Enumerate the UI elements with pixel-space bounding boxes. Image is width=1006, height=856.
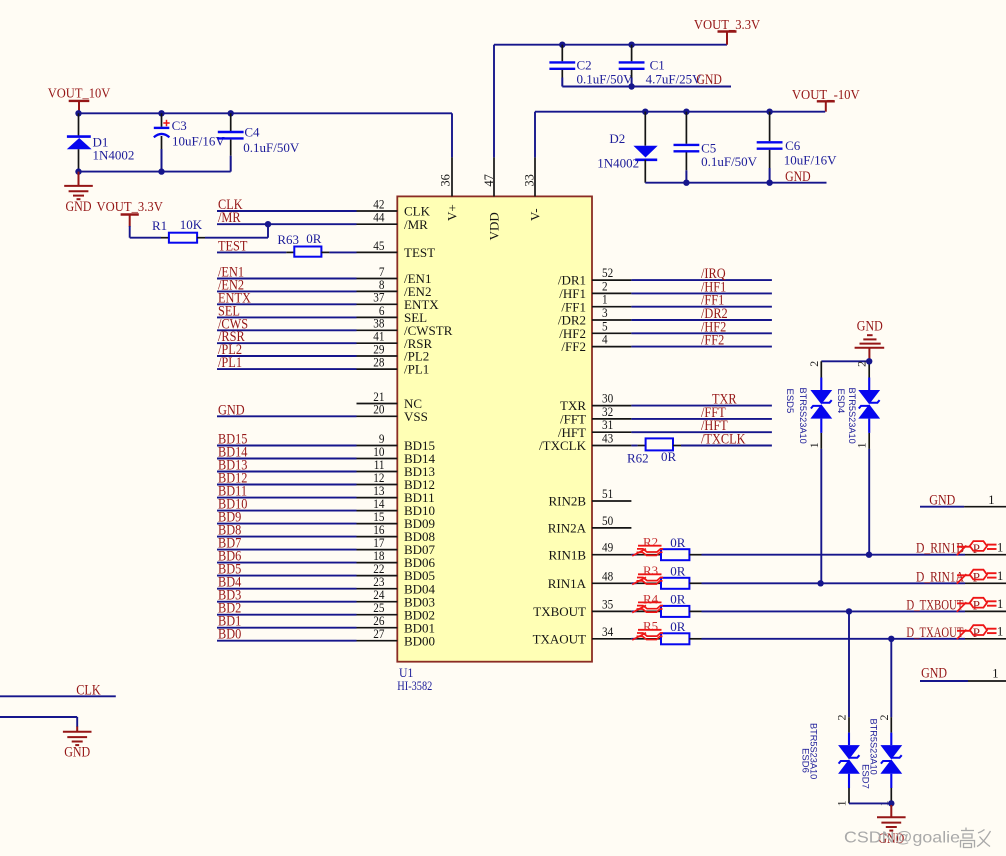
svg-text:2: 2 [807, 361, 821, 367]
svg-text:10K: 10K [180, 217, 203, 232]
pin 2 line ESD5 [820, 361, 822, 377]
svg-text:GND: GND [929, 492, 955, 508]
pin 34 line (TXAOUT) [592, 638, 631, 640]
svg-text:0.1uF/50V: 0.1uF/50V [701, 154, 758, 169]
svg-text:BTR5S23A10: BTR5S23A10 [869, 719, 879, 775]
resistor R5 body [661, 633, 689, 644]
svg-text:18: 18 [373, 549, 384, 563]
not-fitted marker on R4 [632, 602, 663, 612]
node D_RIN1B junction [866, 552, 872, 558]
wire GND net [217, 415, 357, 417]
TVS diode ESD4 symbol [858, 378, 880, 433]
wire BD15 net [217, 445, 357, 447]
svg-text:R1: R1 [152, 218, 167, 233]
wire ESD6 bottom to ESD7 bottom [849, 802, 891, 804]
svg-text:/FF2: /FF2 [561, 339, 586, 354]
svg-text:P: P [973, 625, 980, 640]
wire /EN1 net [217, 278, 357, 280]
svg-text:45: 45 [373, 239, 384, 253]
wire BD12 net [217, 484, 357, 486]
svg-text:0R: 0R [306, 231, 322, 246]
wire BD11 net [217, 497, 357, 499]
masked connector marker D_TXBOUT [957, 598, 997, 613]
pin 37 line (ENTX) [357, 303, 398, 305]
capacitor C1 plates [619, 62, 645, 68]
svg-text:30: 30 [602, 392, 613, 406]
wire VOUT_10V rail to V+ pin corner [79, 112, 453, 114]
capacitor C3 plus sign [163, 120, 169, 126]
pin 1 line ESD7 [890, 788, 892, 804]
svg-text:BTR5S23A10: BTR5S23A10 [847, 388, 857, 444]
wire GND stub upper right to edge [964, 506, 1006, 508]
resistor R62 body [646, 438, 673, 450]
wire D_RIN1A net [702, 582, 966, 584]
resistor R62 left lead [638, 445, 646, 447]
wire /EN2 net [217, 290, 357, 292]
capacitor C2 bottom lead [561, 70, 563, 87]
wire BD14 net [217, 458, 357, 460]
svg-text:43: 43 [602, 432, 613, 446]
svg-text:4.7uF/25V: 4.7uF/25V [646, 71, 703, 86]
wire /HF1 net [631, 292, 772, 294]
capacitor C1 top lead [631, 45, 633, 62]
svg-text:0R: 0R [670, 619, 686, 634]
pin 1 line (/FF1) [592, 306, 631, 308]
capacitor C1 bottom lead [631, 70, 633, 87]
wire ESD pair top rail [821, 360, 869, 362]
svg-text:44: 44 [373, 211, 385, 225]
svg-text:29: 29 [373, 342, 384, 356]
pin 47 line (VDD) [493, 157, 495, 196]
pin 15 line (BD09) [357, 523, 398, 525]
wire ENTX net [217, 303, 357, 305]
wire pin 43 to R62 [631, 445, 637, 447]
svg-text:/PL1: /PL1 [218, 355, 242, 371]
node VOUT_10V at D1 top [75, 110, 81, 116]
svg-text:BD00: BD00 [404, 633, 435, 648]
pin 17 line (BD07) [357, 549, 398, 551]
svg-text:R2: R2 [643, 535, 658, 550]
svg-text:VOUT_10V: VOUT_10V [48, 86, 111, 101]
svg-text:0.1uF/50V: 0.1uF/50V [243, 140, 300, 155]
wire BD2 net [217, 614, 357, 616]
svg-text:D_TXAOUT: D_TXAOUT [906, 625, 963, 641]
pin 51 line (RIN2B) [592, 500, 631, 502]
pin 21 line (NC) [357, 403, 398, 405]
resistor R5 left lead [637, 638, 661, 640]
wire pin 48 to R3 [631, 582, 636, 584]
wire GND stub lower right [920, 680, 968, 682]
svg-text:RIN2A: RIN2A [548, 521, 587, 536]
svg-text:C3: C3 [172, 118, 187, 133]
pin 11 line (BD13) [357, 471, 398, 473]
wire SEL net [217, 316, 357, 318]
wire /PL1 net [217, 368, 357, 370]
svg-text:D2: D2 [609, 131, 625, 146]
pin 16 line (BD08) [357, 536, 398, 538]
svg-text:32: 32 [602, 405, 613, 419]
pin 48 line (RIN1A) [592, 582, 631, 584]
svg-text:HI-3582: HI-3582 [397, 678, 432, 693]
wire BD8 net [217, 536, 357, 538]
node ESD bottom junction [888, 800, 894, 806]
capacitor C3 bottom lead [161, 136, 163, 172]
ground GND below ESD7 [877, 805, 906, 847]
svg-text:0R: 0R [670, 563, 686, 578]
svg-text:14: 14 [373, 497, 385, 511]
svg-text:/FF2: /FF2 [701, 333, 724, 349]
masked connector marker D_RIN1A [957, 570, 997, 585]
not-fitted marker on R2 [632, 546, 663, 556]
wire R63 to pin 45 [329, 251, 356, 253]
svg-text:TXBOUT: TXBOUT [533, 604, 586, 619]
resistor R1 left lead [161, 237, 169, 239]
ground GND under D1 [64, 172, 93, 215]
wire pin 34 to R5 [631, 638, 636, 640]
diode D1 top lead [78, 113, 80, 135]
svg-text:1: 1 [992, 667, 998, 681]
wire VDD vertical [493, 45, 495, 158]
svg-text:VDD: VDD [486, 212, 501, 240]
svg-text:ESD4: ESD4 [835, 389, 846, 414]
svg-text:0R: 0R [661, 449, 677, 464]
svg-text:RIN2B: RIN2B [548, 494, 586, 509]
wire /CWS net [217, 329, 357, 331]
svg-text:/PL1: /PL1 [404, 362, 429, 377]
pin 2 line ESD4 [868, 361, 870, 377]
wire /HF2 net [631, 332, 772, 334]
wire BD9 net [217, 523, 357, 525]
svg-text:1: 1 [997, 541, 1003, 555]
svg-text:GND: GND [218, 402, 245, 418]
resistor R3 right lead [689, 582, 701, 584]
svg-text:D_TXBOUT: D_TXBOUT [906, 597, 963, 613]
svg-text:/TXCLK: /TXCLK [701, 432, 746, 448]
pin 31 line (/HFT) [592, 431, 631, 433]
wire D_RIN1A to sheet edge [965, 582, 1006, 584]
node D_TXAOUT junction [888, 636, 894, 642]
node C6 top junction [766, 109, 772, 115]
svg-text:36: 36 [438, 174, 452, 187]
svg-text:BD0: BD0 [218, 627, 241, 643]
node C4 top junction [228, 110, 234, 116]
node D1 bottom junction [75, 168, 81, 174]
svg-text:10uF/16V: 10uF/16V [172, 133, 225, 148]
wire /RSR net [217, 342, 357, 344]
node C6 bottom junction [766, 180, 772, 186]
svg-text:BTR5S23A10: BTR5S23A10 [798, 388, 808, 444]
svg-text:47: 47 [482, 174, 496, 187]
resistor R4 left lead [637, 610, 661, 612]
svg-text:4: 4 [602, 333, 608, 347]
diode D1 bottom lead [78, 149, 80, 171]
svg-text:0.1uF/50V: 0.1uF/50V [577, 71, 634, 86]
wire D_RIN1B net [702, 554, 966, 556]
svg-text:13: 13 [373, 484, 384, 498]
node D_TXBOUT junction [846, 608, 852, 614]
svg-text:R63: R63 [277, 232, 299, 247]
wire D_TXBOUT net [702, 610, 966, 612]
diode D2 symbol [633, 146, 657, 160]
ground GND bottom left [63, 727, 92, 761]
svg-text:P: P [973, 598, 980, 613]
TVS diode ESD7 symbol [880, 733, 902, 788]
resistor R2 left lead [637, 554, 661, 556]
svg-text:5: 5 [602, 319, 608, 333]
svg-text:25: 25 [373, 601, 384, 615]
wire BD3 net [217, 601, 357, 603]
wire BD0 net [217, 640, 357, 642]
svg-text:GND: GND [785, 169, 811, 185]
wire pin 49 to R2 [631, 554, 636, 556]
svg-text:ESD5: ESD5 [784, 389, 795, 414]
svg-text:11: 11 [374, 458, 385, 472]
wire pin 35 to R4 [631, 610, 636, 612]
svg-text:1: 1 [997, 625, 1003, 639]
resistor R2 body [661, 549, 689, 560]
pin 28 line (/PL1) [357, 368, 398, 370]
pin 38 line (/CWSTR) [357, 329, 398, 331]
wire /FF1 net [631, 306, 772, 308]
svg-text:10uF/16V: 10uF/16V [784, 153, 837, 168]
pin 23 line (BD04) [357, 588, 398, 590]
pin 8 line (/EN2) [357, 290, 398, 292]
ground GND above ESD4 (inverted) [855, 318, 885, 361]
wire VOUT_3.3V down to R1 row [129, 226, 131, 238]
not-fitted marker on R3 [632, 574, 663, 584]
svg-text:10: 10 [373, 445, 384, 459]
pin 24 line (BD03) [357, 601, 398, 603]
wire VOUT_3.3V to R1 left lead [130, 237, 161, 239]
svg-text:V+: V+ [444, 204, 459, 221]
pin 5 line (/HF2) [592, 332, 631, 334]
svg-text:P: P [973, 570, 980, 585]
wire /DR2 net [631, 319, 772, 321]
capacitor C3 top lead [161, 113, 163, 127]
node R1 to /MR wire junction [265, 221, 271, 227]
svg-text:GND: GND [857, 318, 883, 334]
diode D2 top lead [644, 112, 646, 146]
wire D2 C5 C6 bottom rail [645, 182, 826, 184]
svg-text:0R: 0R [670, 592, 686, 607]
pin 27 line (BD00) [357, 640, 398, 642]
pin 1 line ESD4 [868, 433, 870, 449]
capacitor C3 flat plate [154, 127, 170, 129]
capacitor C4 bottom lead [230, 140, 232, 172]
svg-text:2: 2 [602, 279, 608, 293]
svg-text:TXAOUT: TXAOUT [533, 631, 586, 646]
masked connector marker D_RIN1B [957, 541, 997, 556]
wire BD10 net [217, 510, 357, 512]
wire BD7 net [217, 549, 357, 551]
resistor R63 body [294, 247, 321, 257]
capacitor C5 plates [674, 145, 700, 151]
node D_RIN1A junction [817, 580, 823, 586]
wire D_TXAOUT to sheet edge [965, 638, 1006, 640]
wire VDD rail C2 C1 [494, 44, 727, 46]
pin 42 line (CLK) [357, 210, 398, 212]
svg-text:R3: R3 [643, 563, 658, 578]
wire D1-C3-C4 bottom rail [79, 171, 231, 173]
capacitor C2 plates [549, 62, 575, 68]
wire VOUT_-10V rail [535, 111, 825, 113]
svg-text:22: 22 [373, 562, 384, 576]
resistor R3 body [661, 578, 689, 589]
svg-text:42: 42 [373, 197, 384, 211]
svg-text:BTR5S23A10: BTR5S23A10 [808, 723, 818, 779]
wire ESD4 to RIN1B net [868, 449, 870, 555]
power port VOUT_3.3V top [694, 18, 760, 45]
svg-text:R62: R62 [627, 451, 649, 466]
power port VOUT_3.3V left [97, 200, 163, 227]
power port VOUT_10V [48, 86, 111, 113]
pin 9 line (BD15) [357, 445, 398, 447]
pin 1 line ESD6 [848, 788, 850, 804]
resistor R63 left lead [286, 251, 294, 253]
wire BD5 net [217, 575, 357, 577]
resistor R1 body [169, 233, 197, 243]
svg-text:51: 51 [602, 487, 613, 501]
svg-text:RIN1B: RIN1B [548, 547, 586, 562]
pin 52 line (/DR1) [592, 279, 631, 281]
wire /MR net [217, 223, 357, 225]
svg-text:27: 27 [373, 627, 384, 641]
svg-text:GND: GND [64, 745, 90, 761]
wire /PL2 net [217, 355, 357, 357]
svg-text:26: 26 [373, 614, 384, 628]
wire V+ vertical drop [451, 113, 453, 157]
pin 13 line (BD11) [357, 497, 398, 499]
svg-text:38: 38 [373, 317, 384, 331]
pin 22 line (BD05) [357, 575, 398, 577]
pin 26 line (BD01) [357, 627, 398, 629]
svg-text:9: 9 [379, 432, 385, 446]
wire D_RIN1B to sheet edge [965, 554, 1006, 556]
svg-text:VOUT_3.3V: VOUT_3.3V [97, 200, 163, 215]
svg-text:C4: C4 [244, 124, 260, 139]
wire D_TXAOUT net [702, 638, 966, 640]
wire ESD5 to RIN1A net [820, 449, 822, 583]
svg-text:20: 20 [373, 403, 384, 417]
node C3 top junction [158, 110, 164, 116]
svg-text:C5: C5 [701, 140, 716, 155]
svg-text:R5: R5 [643, 619, 658, 634]
wire TXBOUT junction down to ESD6 [848, 611, 850, 717]
not-fitted marker on R5 [632, 630, 663, 640]
svg-text:GND: GND [66, 199, 92, 215]
power port VOUT_-10V [792, 88, 860, 112]
pin 33 line (V-) [534, 157, 536, 196]
svg-text:24: 24 [373, 588, 385, 602]
svg-text:0R: 0R [670, 535, 686, 550]
pin 20 line (VSS) [357, 415, 398, 417]
wire /FF2 net [631, 346, 772, 348]
wire bottom left to GND [0, 717, 77, 727]
pin 12 line (BD12) [357, 484, 398, 486]
pin 29 line (/PL2) [357, 355, 398, 357]
wire D_TXBOUT to sheet edge [965, 610, 1006, 612]
svg-text:1: 1 [997, 569, 1003, 583]
svg-text:6: 6 [379, 304, 385, 318]
svg-text:/MR: /MR [404, 217, 428, 232]
svg-text:CSDN@goalie: CSDN@goalie [844, 830, 960, 847]
svg-text:1N4002: 1N4002 [597, 156, 639, 171]
svg-text:R4: R4 [643, 591, 659, 606]
wire /HFT net [631, 431, 772, 433]
wire TEST label to R63 [217, 251, 286, 253]
pin 43 line (/TXCLK) [592, 445, 631, 447]
resistor R2 right lead [689, 554, 701, 556]
svg-text:1N4002: 1N4002 [93, 148, 135, 163]
resistor R3 left lead [637, 582, 661, 584]
node C5 top junction [683, 109, 689, 115]
svg-text:C6: C6 [785, 138, 801, 153]
svg-text:GND: GND [921, 666, 947, 682]
svg-text:RIN1A: RIN1A [548, 576, 587, 591]
pin 4 line (/FF2) [592, 346, 631, 348]
resistor R63 right lead [321, 251, 329, 253]
svg-text:P: P [973, 541, 980, 556]
node C5 bottom junction [683, 180, 689, 186]
capacitor C6 plates [757, 142, 783, 148]
pin 36 line (V+) [451, 157, 453, 196]
capacitor C6 top lead [769, 112, 771, 142]
pin 35 line (TXBOUT) [592, 610, 631, 612]
resistor R62 right lead [673, 445, 681, 447]
pin 50 line (RIN2A) [592, 527, 631, 529]
pin 2 line ESD7 [890, 717, 892, 732]
svg-text:28: 28 [373, 356, 384, 370]
svg-text:8: 8 [379, 278, 385, 292]
wire BD13 net [217, 471, 357, 473]
svg-text:48: 48 [602, 569, 613, 583]
svg-text:1: 1 [602, 293, 608, 307]
wire GND stub lower right to edge [968, 680, 1006, 682]
resistor R4 body [661, 606, 689, 617]
svg-text:3: 3 [602, 306, 608, 320]
svg-text:49: 49 [602, 541, 613, 555]
pin 45 line (TEST) [357, 251, 398, 253]
op-amp U1 IC body HI-3582 [397, 196, 592, 661]
resistor R5 right lead [689, 638, 701, 640]
svg-text:VSS: VSS [404, 409, 428, 424]
svg-text:52: 52 [602, 266, 613, 280]
node C1 top junction [628, 42, 634, 48]
pin 6 line (SEL) [357, 316, 398, 318]
node C3 bottom junction [158, 168, 164, 174]
svg-text:16: 16 [373, 523, 384, 537]
capacitor C5 top lead [685, 112, 687, 144]
capacitor C4 plates [218, 132, 244, 138]
wire R62 to /TXCLK label [681, 445, 772, 447]
pin 2 line ESD6 [848, 717, 850, 732]
diode D2 bottom lead [644, 160, 646, 183]
svg-text:/TXCLK: /TXCLK [539, 438, 587, 453]
svg-text:7: 7 [379, 265, 385, 279]
wire TXR net [631, 405, 772, 407]
svg-text:12: 12 [373, 471, 384, 485]
pin 41 line (/RSR) [357, 342, 398, 344]
wire C2 C1 bottom to GND label [562, 86, 731, 88]
svg-text:TEST: TEST [218, 238, 248, 254]
svg-text:CLK: CLK [76, 682, 101, 698]
svg-text:V-: V- [527, 208, 542, 221]
svg-text:35: 35 [602, 597, 613, 611]
svg-text:34: 34 [602, 625, 614, 639]
svg-text:23: 23 [373, 575, 384, 589]
TVS diode ESD5 symbol [810, 378, 832, 433]
svg-text:17: 17 [373, 536, 384, 550]
